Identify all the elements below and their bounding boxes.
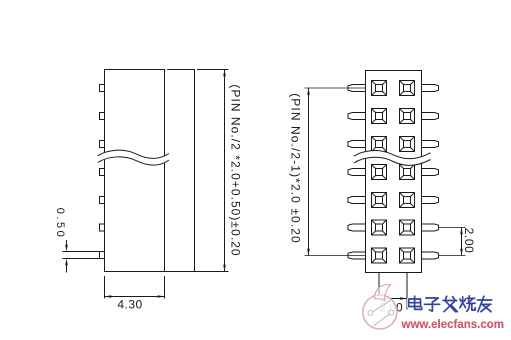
left view: top edge gap bbox=[165, 69, 167, 71]
dim 2.00 bottom arrow right bbox=[400, 297, 407, 300]
left view break wavy line upper bbox=[98, 150, 169, 158]
left view break band (white) bbox=[98, 150, 169, 165]
right view left pin 3 bbox=[348, 141, 366, 148]
pad row2 col2 bbox=[400, 109, 415, 124]
dimension (PIN No./2-1)*2.0 ±0.20 line bbox=[308, 88, 310, 256]
pad row1 col1 bbox=[372, 81, 387, 96]
right view left pin 6 bbox=[348, 224, 366, 231]
pad row7 col1 bbox=[372, 248, 387, 263]
pad row1 col2 bbox=[400, 81, 415, 96]
pad row6 col2 bbox=[400, 220, 415, 235]
right view break band (white) bbox=[354, 151, 431, 166]
svg-text:0.50: 0.50 bbox=[54, 208, 66, 239]
left dim arrow bottom bbox=[307, 249, 310, 256]
pad row6 col1 bbox=[372, 220, 387, 235]
left view break wavy line lower bbox=[98, 157, 169, 165]
dimension 2.00 (bottom) line bbox=[381, 298, 407, 300]
dimension 0.50 leader bbox=[66, 240, 68, 245]
left view pin tab 5 bbox=[100, 197, 105, 204]
dimension 4.30 line bbox=[105, 296, 165, 298]
vertical dim arrow top bbox=[223, 70, 226, 77]
dimension (PIN No./2 *2.0+0.50)±0.20 extension lines bbox=[197, 69, 229, 71]
right view right pin 7 bbox=[422, 252, 439, 259]
dimension 2.00 (right) line bbox=[461, 228, 463, 256]
pad row5 col2 bbox=[400, 193, 415, 208]
watermark: text 电子发烧友 (glow) bbox=[409, 296, 492, 312]
pad row7 col2 bbox=[400, 248, 415, 263]
right view left pin 5 bbox=[348, 197, 366, 204]
vertical dim arrow bottom bbox=[223, 265, 226, 272]
left view: connector body outline bbox=[105, 70, 195, 272]
pad row4 col2 bbox=[400, 165, 415, 180]
dimension 2.00 (bottom) extension lines bbox=[378, 273, 380, 296]
dimension 0.50 arrow up bbox=[65, 259, 68, 266]
dimension 0.50 arrow down bbox=[65, 245, 68, 252]
right view left pin 7 bbox=[348, 252, 366, 259]
left view pin tab 1 bbox=[100, 85, 105, 92]
left view pin tab 6 bbox=[100, 224, 105, 231]
right view left pin 4 bbox=[348, 169, 366, 176]
svg-text:4.30: 4.30 bbox=[117, 298, 142, 312]
pad row5 col1 bbox=[372, 193, 387, 208]
left dim arrow top bbox=[307, 88, 310, 95]
watermark: logo plug bars bbox=[373, 300, 393, 313]
dimension (PIN No./2 *2.0+0.50)±0.20 line bbox=[224, 70, 226, 272]
right view break wavy line lower bbox=[354, 157, 431, 165]
right view right pin 2 bbox=[422, 113, 439, 120]
watermark: text 电子发烧友 (strokes) bbox=[409, 296, 492, 312]
dimension 2.00 (right) extension lines bbox=[439, 227, 466, 229]
right view right pin 1 bbox=[422, 85, 439, 92]
pad row3 col2 bbox=[400, 137, 415, 152]
dimension 4.30 arrow left bbox=[105, 295, 112, 298]
svg-text:(PIN No./2 *2.0+0.50)±0.20: (PIN No./2 *2.0+0.50)±0.20 bbox=[229, 84, 243, 256]
dim 2.00 right arrow top bbox=[460, 228, 463, 235]
watermark: logo crescent bbox=[375, 285, 391, 301]
left view pin tab 3 bbox=[100, 141, 105, 148]
svg-text:(PIN No./2-1)*2.0 ±0.20: (PIN No./2-1)*2.0 ±0.20 bbox=[289, 93, 303, 244]
watermark: elecfans logo disc bbox=[362, 285, 398, 330]
right view right pin 5 bbox=[422, 197, 439, 204]
dimension (PIN No./2-1)*2.0 ±0.20 extension lines bbox=[305, 87, 366, 89]
right view break wavy line upper bbox=[354, 151, 431, 159]
right view: connector body outline bbox=[366, 71, 422, 273]
watermark: logo plug dots bbox=[368, 311, 373, 316]
dimension 4.30 arrow right bbox=[158, 295, 165, 298]
left view pin tab 7 bbox=[100, 252, 105, 259]
left view pin tab 4 bbox=[100, 169, 105, 176]
pad row4 col1 bbox=[372, 165, 387, 180]
left view pin tab 2 bbox=[100, 113, 105, 120]
right view left pin 1 bbox=[348, 85, 366, 92]
pad row3 col1 bbox=[372, 137, 387, 152]
right view right pin 6 bbox=[422, 224, 439, 231]
dimension 0.50 extension lines bbox=[63, 251, 100, 253]
svg-text:2.00: 2.00 bbox=[462, 228, 476, 254]
svg-text:www.elecfans.com: www.elecfans.com bbox=[401, 319, 504, 331]
left view: internal housing line bbox=[164, 70, 166, 272]
dim 2.00 right arrow bottom bbox=[460, 249, 463, 256]
right view right pin 3 bbox=[422, 141, 439, 148]
right view right pin 4 bbox=[422, 169, 439, 176]
dimension 4.30 extension lines bbox=[104, 276, 106, 299]
right view left pin 2 bbox=[348, 113, 366, 120]
pad row2 col1 bbox=[372, 109, 387, 124]
